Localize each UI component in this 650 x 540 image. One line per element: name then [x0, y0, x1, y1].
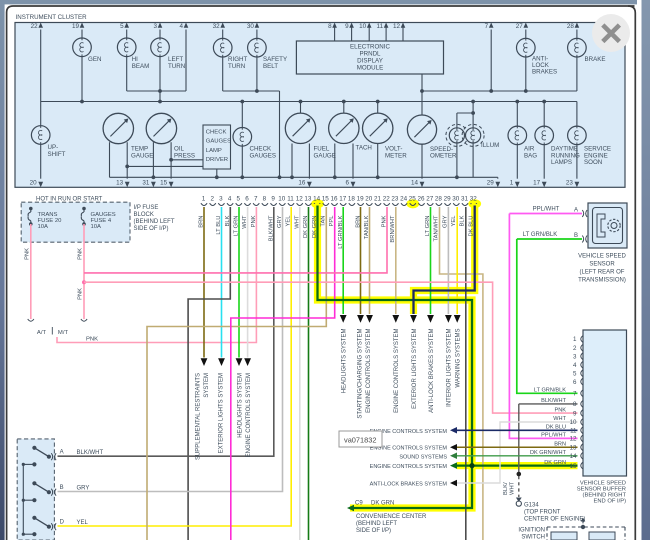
svg-text:9: 9: [573, 410, 577, 417]
svg-text:G134: G134: [524, 503, 539, 509]
svg-text:29: 29: [487, 179, 495, 186]
svg-text:PNK: PNK: [78, 248, 84, 260]
svg-text:BRN: BRN: [554, 441, 566, 447]
svg-text:BLK: BLK: [225, 215, 231, 226]
svg-text:I/P FUSE: I/P FUSE: [134, 205, 159, 211]
svg-text:PPL: PPL: [329, 215, 335, 227]
svg-text:14: 14: [411, 179, 419, 186]
svg-text:PNK: PNK: [381, 215, 387, 227]
svg-text:1: 1: [573, 336, 577, 343]
svg-text:27: 27: [426, 196, 434, 203]
svg-text:BLK/WHT: BLK/WHT: [541, 398, 566, 404]
svg-text:11: 11: [377, 23, 384, 30]
svg-text:HOT IN RUN OR START: HOT IN RUN OR START: [36, 197, 103, 203]
svg-text:SUPPLEMENTAL RESTRAINTS: SUPPLEMENTAL RESTRAINTS: [196, 373, 202, 460]
svg-text:2: 2: [573, 345, 577, 352]
svg-text:WHT: WHT: [242, 215, 248, 229]
svg-text:EXTERIOR LIGHTS SYSTEM: EXTERIOR LIGHTS SYSTEM: [218, 373, 224, 453]
svg-text:31: 31: [142, 179, 150, 186]
svg-text:29: 29: [444, 196, 452, 203]
svg-text:BLK/: BLK/: [503, 482, 509, 495]
svg-text:ENGINE CONTROLS SYSTEM: ENGINE CONTROLS SYSTEM: [246, 373, 252, 457]
svg-text:SIDE OF I/P): SIDE OF I/P): [134, 226, 169, 232]
svg-text:BEAM: BEAM: [132, 63, 150, 70]
svg-text:BLK/WHT: BLK/WHT: [268, 215, 274, 241]
svg-text:(BEHIND LEFT: (BEHIND LEFT: [356, 521, 397, 527]
svg-text:DRIVER: DRIVER: [206, 157, 228, 163]
svg-text:ANTI-LOCK BRAKES SYSTEM: ANTI-LOCK BRAKES SYSTEM: [429, 329, 435, 413]
svg-text:CENTER OF ENGINE): CENTER OF ENGINE): [524, 517, 585, 523]
svg-text:HEADLIGHTS SYSTEM: HEADLIGHTS SYSTEM: [342, 329, 348, 394]
svg-text:3: 3: [153, 23, 157, 30]
svg-text:DK GRN: DK GRN: [371, 501, 394, 507]
svg-text:ILLUM: ILLUM: [481, 142, 499, 149]
svg-text:VEHICLE SPEED: VEHICLE SPEED: [578, 254, 626, 260]
svg-text:9: 9: [271, 196, 275, 203]
svg-text:PRNDL: PRNDL: [360, 51, 382, 58]
svg-text:6: 6: [245, 196, 249, 203]
svg-text:SWITCH: SWITCH: [521, 535, 545, 540]
svg-text:BAG: BAG: [524, 152, 537, 159]
svg-text:LAMPS: LAMPS: [551, 159, 572, 166]
svg-text:3: 3: [573, 353, 577, 360]
svg-text:11: 11: [570, 428, 577, 435]
svg-text:4: 4: [179, 23, 183, 30]
svg-text:A: A: [60, 450, 64, 456]
svg-text:DK GRN: DK GRN: [544, 460, 566, 466]
svg-text:22: 22: [31, 23, 39, 30]
svg-text:8: 8: [263, 196, 267, 203]
svg-text:LT GRN: LT GRN: [234, 216, 240, 237]
svg-text:10A: 10A: [91, 224, 102, 230]
svg-text:B: B: [60, 485, 64, 491]
svg-text:DK GRN: DK GRN: [303, 216, 309, 239]
svg-text:A/T: A/T: [37, 330, 47, 336]
svg-text:15: 15: [570, 463, 577, 470]
svg-text:17: 17: [339, 196, 347, 203]
svg-text:ENGINE CONTROLS SYSTEM: ENGINE CONTROLS SYSTEM: [394, 329, 400, 413]
svg-text:HEADLIGHTS SYSTEM: HEADLIGHTS SYSTEM: [237, 373, 243, 438]
svg-text:GRY: GRY: [277, 215, 283, 228]
svg-text:3: 3: [219, 196, 223, 203]
svg-text:31: 31: [461, 196, 469, 203]
svg-text:WHT: WHT: [294, 215, 300, 229]
svg-text:28: 28: [567, 23, 575, 30]
svg-text:32: 32: [213, 23, 221, 30]
svg-text:19: 19: [72, 23, 80, 30]
svg-text:MODULE: MODULE: [357, 65, 383, 72]
svg-text:DK GRN: DK GRN: [312, 216, 318, 239]
svg-text:15: 15: [160, 179, 168, 186]
svg-text:SOUND SYSTEMS: SOUND SYSTEMS: [399, 454, 447, 460]
svg-text:va071832: va071832: [344, 435, 376, 444]
svg-text:BELT: BELT: [263, 63, 278, 70]
svg-text:YEL: YEL: [286, 215, 292, 227]
svg-text:5: 5: [573, 370, 577, 377]
svg-text:LT GRN/BLK: LT GRN/BLK: [523, 232, 557, 238]
svg-text:TRANSMISSION): TRANSMISSION): [578, 278, 626, 284]
svg-text:DK GRN/WHT: DK GRN/WHT: [530, 450, 567, 456]
svg-text:END OF I/P): END OF I/P): [593, 498, 626, 504]
svg-text:BRN/WHT: BRN/WHT: [390, 215, 396, 243]
svg-text:ENGINE CONTROLS SYSTEM: ENGINE CONTROLS SYSTEM: [366, 329, 372, 413]
svg-text:D: D: [60, 520, 65, 526]
svg-text:BRAKES: BRAKES: [532, 69, 557, 76]
svg-text:BLOCK: BLOCK: [134, 212, 154, 218]
svg-text:BLK: BLK: [460, 215, 466, 226]
svg-text:PPL/WHT: PPL/WHT: [541, 433, 566, 439]
svg-text:TACH: TACH: [356, 145, 372, 152]
svg-text:27: 27: [516, 23, 524, 30]
svg-text:6: 6: [573, 379, 577, 386]
svg-text:5: 5: [237, 196, 241, 203]
svg-text:13: 13: [570, 444, 577, 451]
svg-text:YEL: YEL: [451, 215, 457, 227]
svg-text:12: 12: [296, 196, 304, 203]
svg-text:2: 2: [210, 196, 214, 203]
svg-text:16: 16: [330, 196, 338, 203]
svg-text:7: 7: [485, 23, 489, 30]
svg-text:GRY: GRY: [77, 486, 90, 492]
svg-text:4: 4: [573, 362, 577, 369]
svg-text:SENSOR: SENSOR: [589, 262, 615, 268]
svg-text:TAN/WHT: TAN/WHT: [434, 215, 440, 241]
svg-text:9: 9: [345, 23, 349, 30]
svg-text:ELECTRONIC: ELECTRONIC: [350, 44, 390, 51]
svg-text:20: 20: [365, 196, 373, 203]
svg-text:PNK: PNK: [24, 248, 30, 260]
svg-text:23: 23: [566, 179, 574, 186]
svg-text:13: 13: [304, 196, 312, 203]
svg-text:15: 15: [322, 196, 330, 203]
svg-text:5: 5: [120, 23, 124, 30]
svg-text:DK BLU: DK BLU: [546, 425, 566, 431]
svg-text:DISPLAY: DISPLAY: [357, 58, 383, 65]
svg-text:TAN/BLK: TAN/BLK: [364, 215, 370, 239]
svg-text:12: 12: [570, 436, 577, 443]
svg-text:STARTING/CHARGING SYSTEM: STARTING/CHARGING SYSTEM: [358, 329, 364, 419]
svg-text:22: 22: [383, 196, 391, 203]
svg-text:30: 30: [452, 196, 460, 203]
svg-text:1: 1: [510, 179, 514, 186]
svg-text:19: 19: [357, 196, 365, 203]
svg-text:16: 16: [298, 179, 306, 186]
svg-text:PPL/WHT: PPL/WHT: [533, 207, 560, 213]
svg-text:LAMP: LAMP: [206, 148, 222, 154]
svg-text:LT GRN/BLK: LT GRN/BLK: [338, 215, 344, 248]
svg-text:LT GRN: LT GRN: [425, 216, 431, 237]
svg-text:DK BLU: DK BLU: [468, 216, 474, 237]
svg-text:14: 14: [570, 453, 577, 460]
svg-text:B: B: [574, 233, 578, 239]
svg-text:TURN: TURN: [228, 63, 245, 70]
svg-text:PRESS: PRESS: [174, 152, 195, 159]
svg-text:GAUGE: GAUGE: [131, 152, 153, 159]
svg-text:M/T: M/T: [58, 330, 69, 336]
svg-text:EXTERIOR LIGHTS SYSTEM: EXTERIOR LIGHTS SYSTEM: [412, 329, 418, 409]
svg-text:IGNITION: IGNITION: [518, 528, 545, 534]
svg-text:GAUGES: GAUGES: [206, 139, 231, 145]
svg-text:26: 26: [417, 196, 425, 203]
svg-text:GAUGE: GAUGE: [314, 152, 336, 159]
svg-text:SHIFT: SHIFT: [48, 151, 66, 158]
svg-text:6: 6: [345, 179, 349, 186]
svg-text:10: 10: [359, 23, 367, 30]
svg-text:13: 13: [116, 179, 124, 186]
svg-text:18: 18: [348, 196, 356, 203]
svg-text:21: 21: [374, 196, 382, 203]
svg-text:INTERIOR LIGHTS SYSTEM: INTERIOR LIGHTS SYSTEM: [447, 328, 453, 406]
svg-text:(TOP FRONT: (TOP FRONT: [524, 510, 561, 516]
svg-text:24: 24: [400, 196, 408, 203]
svg-text:GRY: GRY: [442, 215, 448, 228]
svg-text:BRAKE: BRAKE: [585, 56, 606, 63]
svg-text:METER: METER: [385, 152, 407, 159]
svg-text:INSTRUMENT CLUSTER: INSTRUMENT CLUSTER: [16, 14, 88, 21]
svg-text:7: 7: [573, 391, 577, 398]
svg-text:PNK: PNK: [86, 337, 98, 343]
svg-text:PNK: PNK: [554, 407, 566, 413]
svg-text:BLK/WHT: BLK/WHT: [77, 450, 104, 456]
svg-text:PNK: PNK: [78, 288, 84, 300]
svg-text:GAUGES: GAUGES: [250, 152, 276, 159]
svg-text:SYSTEM: SYSTEM: [204, 373, 210, 398]
svg-text:YEL: YEL: [77, 520, 89, 526]
svg-text:12: 12: [393, 23, 401, 30]
svg-text:(LEFT REAR OF: (LEFT REAR OF: [580, 270, 625, 276]
svg-text:11: 11: [287, 196, 294, 203]
svg-text:1: 1: [202, 196, 206, 203]
svg-text:TURN: TURN: [168, 63, 185, 70]
svg-text:C9: C9: [355, 501, 363, 507]
svg-text:CHECK: CHECK: [206, 130, 227, 136]
svg-text:10: 10: [278, 196, 286, 203]
svg-text:SIDE OF I/P): SIDE OF I/P): [356, 528, 391, 534]
svg-text:23: 23: [391, 196, 399, 203]
svg-text:8: 8: [328, 23, 332, 30]
svg-text:WARNING SYSTEMS: WARNING SYSTEMS: [456, 329, 462, 388]
svg-text:WHT: WHT: [510, 481, 516, 495]
svg-text:OMETER: OMETER: [430, 153, 457, 160]
svg-text:A: A: [574, 208, 578, 214]
svg-text:ANTI-LOCK BRAKES SYSTEM: ANTI-LOCK BRAKES SYSTEM: [370, 482, 448, 488]
svg-text:BRN: BRN: [199, 216, 205, 228]
svg-text:LT GRN/BLK: LT GRN/BLK: [534, 388, 566, 394]
svg-text:17: 17: [533, 179, 541, 186]
svg-text:WHT: WHT: [553, 416, 566, 422]
svg-text:CONVENIENCE CENTER: CONVENIENCE CENTER: [356, 514, 427, 520]
svg-text:32: 32: [470, 196, 478, 203]
svg-text:8: 8: [573, 401, 577, 408]
svg-text:ENGINE CONTROLS SYSTEM: ENGINE CONTROLS SYSTEM: [370, 464, 448, 470]
svg-text:SOON: SOON: [584, 159, 602, 166]
svg-text:LT BLU: LT BLU: [216, 216, 222, 235]
svg-text:10: 10: [570, 419, 577, 426]
svg-text:30: 30: [247, 23, 255, 30]
svg-text:GEN: GEN: [88, 56, 101, 63]
svg-text:14: 14: [313, 196, 321, 203]
svg-text:PNK: PNK: [251, 215, 257, 227]
svg-text:BRN: BRN: [355, 216, 361, 228]
svg-text:7: 7: [254, 196, 258, 203]
svg-text:TAN: TAN: [321, 216, 327, 227]
svg-text:25: 25: [409, 196, 417, 203]
svg-text:4: 4: [228, 196, 232, 203]
svg-text:20: 20: [30, 179, 38, 186]
svg-text:10A: 10A: [38, 224, 49, 230]
svg-text:28: 28: [435, 196, 443, 203]
svg-text:(BEHIND LEFT: (BEHIND LEFT: [134, 219, 175, 225]
